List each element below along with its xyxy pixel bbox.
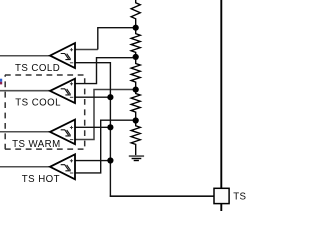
svg-text:TS: TS bbox=[233, 192, 246, 203]
svg-text:TS HOT: TS HOT bbox=[22, 174, 60, 185]
svg-text:TS COLD: TS COLD bbox=[15, 63, 60, 74]
svg-text:TS WARM: TS WARM bbox=[12, 139, 61, 150]
svg-text:TS COOL: TS COOL bbox=[15, 97, 61, 108]
